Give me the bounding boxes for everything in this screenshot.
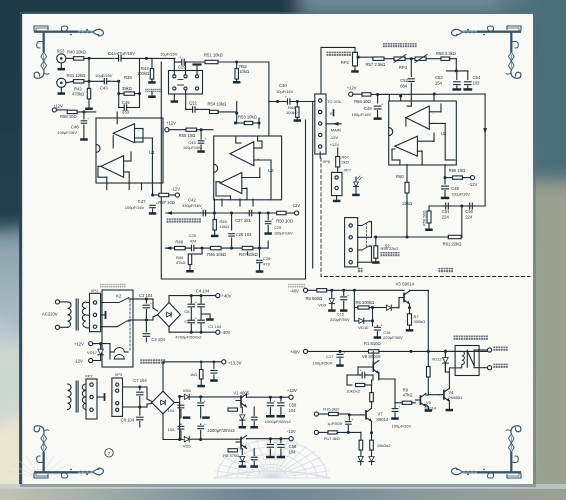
- svg-text:474: 474: [190, 239, 197, 244]
- wire XP6 TO VOL from C30: [314, 101, 316, 103]
- K2 contact 2: [101, 326, 117, 328]
- svg-text:R50 10Ω: R50 10Ω: [276, 218, 293, 223]
- svg-text:VD6: VD6: [183, 388, 192, 393]
- cap 100uF/16V near R9: [394, 403, 396, 408]
- svg-text:+: +: [274, 441, 276, 445]
- relay coil symbol: [449, 351, 464, 372]
- op-amp U1 box: [96, 118, 163, 183]
- connector XP2: [86, 379, 97, 419]
- svg-text:K2: K2: [116, 294, 122, 299]
- transformer T1 secondary: [82, 302, 86, 327]
- svg-text:R37 10Ω: R37 10Ω: [158, 200, 175, 205]
- label to discrete circuit: [167, 218, 171, 222]
- capacitor C43: [101, 80, 104, 82]
- wire: [85, 80, 104, 82]
- svg-text:XP6: XP6: [323, 159, 331, 164]
- potentiometer RP2: [353, 52, 358, 66]
- svg-text:C59: C59: [289, 444, 297, 449]
- svg-text:4700μF/50Vx2: 4700μF/50Vx2: [175, 335, 202, 340]
- svg-text:XP1: XP1: [91, 288, 99, 293]
- svg-text:+: +: [156, 202, 158, 206]
- svg-text:10kΩ: 10kΩ: [239, 69, 249, 74]
- board caption left: [100, 284, 126, 288]
- resistor R55: [169, 129, 186, 131]
- svg-text:R60: R60: [396, 174, 404, 179]
- svg-text:3kΩ: 3kΩ: [342, 160, 349, 165]
- svg-text:22kΩ: 22kΩ: [402, 201, 412, 206]
- speaker labels: [493, 347, 497, 351]
- freq select pot label: [383, 43, 387, 47]
- wire phase switch to rail: [173, 58, 175, 74]
- svg-text:10μF/16V: 10μF/16V: [160, 51, 178, 56]
- pot RP3 element B: [405, 58, 415, 60]
- AC220V terminals: [55, 300, 59, 304]
- -12V terminal: [175, 193, 179, 197]
- bottom row wire: [165, 247, 174, 249]
- svg-text:+: +: [398, 405, 400, 409]
- svg-text:S2: S2: [385, 244, 391, 249]
- svg-text:C58: C58: [289, 403, 297, 408]
- svg-text:100μF/16V: 100μF/16V: [451, 193, 470, 197]
- ground R47 under: [247, 252, 249, 255]
- bridge2 right out: [174, 402, 179, 404]
- svg-text:+12V: +12V: [166, 121, 176, 126]
- connector XP1: [90, 293, 101, 331]
- svg-text:103: 103: [473, 81, 481, 86]
- capacitor C8: [139, 407, 141, 415]
- resistor R1 810: [307, 350, 368, 352]
- bridge1 out wires: [168, 296, 170, 303]
- resistor R61: [448, 235, 461, 238]
- wire XP6 top to volume pot: [320, 47, 322, 94]
- wire XP3 to bridge2: [123, 386, 140, 388]
- R17 3k: [314, 430, 318, 434]
- K2 relay coil: [114, 348, 124, 360]
- wire to C53/C54: [450, 58, 457, 60]
- capacitor C52: [410, 59, 412, 77]
- capacitor C22: [185, 90, 187, 109]
- -12V output terminal: [289, 437, 293, 441]
- capacitor C53: [456, 71, 458, 80]
- electrolytic near V6: [358, 374, 361, 376]
- filter caps C6 C5: [190, 296, 192, 303]
- svg-text:R41 12kΩ: R41 12kΩ: [67, 73, 86, 78]
- ground stub right of C45: [151, 91, 153, 95]
- resistor R56 56ohm: [428, 206, 430, 211]
- background top-right teal zone: [498, 0, 566, 185]
- svg-text:10μF/16V: 10μF/16V: [95, 73, 113, 78]
- svg-text:R55 10Ω: R55 10Ω: [179, 133, 196, 138]
- capacitor C49: [374, 105, 381, 107]
- svg-text:333: 333: [122, 110, 130, 115]
- svg-text:224: 224: [465, 214, 473, 219]
- svg-text:C45: C45: [188, 140, 196, 145]
- svg-text:300kΩ: 300kΩ: [414, 319, 426, 324]
- svg-text:2N5551: 2N5551: [448, 395, 463, 400]
- R16 3k: [314, 412, 318, 416]
- capacitor C17: [339, 351, 341, 352]
- +40V feed terminal: [303, 349, 307, 353]
- svg-text:R46 10kΩ: R46 10kΩ: [207, 252, 226, 257]
- svg-text:+: +: [274, 399, 276, 403]
- svg-text:+: +: [204, 423, 206, 427]
- resistor R59: [374, 246, 378, 258]
- background top-left dark zone: [0, 0, 310, 230]
- resistor R51: [205, 60, 218, 63]
- wire: [66, 57, 74, 59]
- svg-text:R47 10kΩ: R47 10kΩ: [239, 252, 258, 257]
- svg-text:R40 10kΩ: R40 10kΩ: [67, 50, 86, 55]
- svg-text:VD5: VD5: [183, 443, 192, 448]
- svg-text:+: +: [204, 137, 206, 141]
- svg-text:+12V: +12V: [74, 342, 84, 347]
- resistor R57: [373, 57, 384, 60]
- svg-text:+: +: [285, 95, 287, 99]
- V5 emitter ground: [426, 405, 428, 408]
- svg-text:XS3: XS3: [57, 49, 66, 54]
- capacitor C2: [145, 320, 147, 332]
- op-amp U3 box: [389, 101, 457, 165]
- wire top rail right channel: [146, 57, 175, 59]
- resistor R65: [445, 177, 453, 179]
- svg-text:MAIN: MAIN: [331, 128, 341, 133]
- svg-text:220μF/50V: 220μF/50V: [383, 335, 403, 340]
- svg-text:-40V: -40V: [290, 289, 299, 294]
- svg-text:R16 3kΩ: R16 3kΩ: [323, 406, 339, 411]
- wire right channel vertical: [268, 62, 270, 135]
- zener VD10: [353, 308, 355, 321]
- +40V terminal: [190, 294, 193, 297]
- electrolytic 2200uF b: [198, 425, 204, 427]
- svg-text:VD10: VD10: [358, 325, 369, 330]
- svg-text:C8 104: C8 104: [121, 418, 135, 423]
- svg-text:VD12: VD12: [432, 357, 443, 362]
- svg-text:473: 473: [263, 262, 270, 267]
- capacitor C51: [443, 205, 446, 207]
- corner flourish bottom-right: [451, 426, 521, 478]
- svg-text:154: 154: [435, 81, 443, 86]
- capacitor C54: [467, 71, 469, 80]
- U2 bottom pins: [221, 199, 223, 206]
- input jack XS3: [57, 54, 66, 63]
- resistor R86: [353, 93, 362, 95]
- diode to V3 base: [373, 307, 386, 309]
- corner flourish bottom-left: [34, 426, 104, 478]
- svg-text:V5: V5: [426, 400, 432, 405]
- LED indicator: [355, 177, 357, 181]
- svg-text:-12V: -12V: [469, 182, 478, 187]
- svg-text:C47: C47: [138, 199, 146, 204]
- svg-text:E: E: [330, 111, 333, 116]
- wire from pot to R57: [358, 56, 373, 58]
- resistor R46: [210, 246, 221, 249]
- svg-text:R53 10kΩ: R53 10kΩ: [238, 115, 257, 120]
- preamp board outline frame: [161, 62, 305, 279]
- ground bars mid: [180, 416, 182, 418]
- capacitor C16: [372, 308, 374, 326]
- resistor R42: [88, 58, 90, 81]
- bottom diodes: [360, 450, 362, 456]
- cap 104 a: [179, 402, 181, 404]
- board caption right: [288, 284, 305, 288]
- wire: [371, 93, 389, 95]
- capacitor C44: [116, 57, 119, 59]
- V3 emitter to R7: [409, 304, 411, 314]
- svg-text:10kΩ: 10kΩ: [220, 224, 229, 229]
- control board label: [439, 268, 443, 272]
- phase switch box: [169, 71, 203, 95]
- U3 bottom wires: [406, 165, 408, 183]
- svg-text:RP3: RP3: [399, 65, 408, 70]
- cap beside V2: [253, 449, 255, 456]
- svg-text:R5 560Ω: R5 560Ω: [306, 296, 323, 301]
- svg-text:470kΩ: 470kΩ: [72, 92, 84, 97]
- svg-text:C15: C15: [337, 311, 345, 316]
- relay contact symbol: [467, 350, 474, 368]
- wire: [123, 57, 152, 59]
- K2 dashed link: [129, 300, 131, 352]
- key XP2: [97, 396, 104, 398]
- connector XP3: [112, 378, 123, 416]
- svg-text:U3: U3: [441, 131, 447, 136]
- resistor R37: [159, 193, 169, 196]
- svg-text:R65 10Ω: R65 10Ω: [449, 168, 466, 173]
- svg-text:R1 810Ω: R1 810Ω: [364, 341, 381, 346]
- phase switch top bar: [194, 63, 201, 65]
- svg-text:+: +: [347, 293, 349, 297]
- svg-text:10kΩx2: 10kΩx2: [377, 443, 391, 448]
- svg-text:1000μF/50Vx2: 1000μF/50Vx2: [265, 419, 292, 424]
- svg-text:C25: C25: [274, 225, 282, 230]
- output filter caps +12V: [269, 397, 271, 401]
- resistor R52: [236, 62, 238, 69]
- op-amp B in U1: [101, 156, 124, 178]
- capacitor C42: [200, 212, 203, 214]
- svg-text:R17 3kΩ: R17 3kΩ: [324, 436, 340, 441]
- svg-text:39kΩ: 39kΩ: [122, 86, 132, 91]
- capacitor C46: [83, 112, 85, 119]
- svg-text:C54: C54: [473, 75, 481, 80]
- background top strip light patch: [300, 0, 535, 16]
- svg-text:-12V: -12V: [171, 187, 180, 192]
- +13.3V rail detail: [200, 361, 203, 364]
- phase switch ground: [173, 94, 175, 100]
- svg-text:V3 S9014: V3 S9014: [396, 282, 415, 287]
- svg-text:104: 104: [168, 427, 175, 432]
- resistor 1k to ground: [200, 362, 202, 370]
- background bottom-left cream wedge: [0, 342, 158, 500]
- power switch connector S2 box: [345, 218, 358, 267]
- wire: [221, 247, 242, 249]
- resistor R58b 3.3k: [426, 58, 441, 60]
- svg-text:104: 104: [168, 408, 175, 413]
- corner flourish top-right: [451, 26, 521, 78]
- background bottom strip: [0, 488, 566, 500]
- svg-text:R61 22kΩ: R61 22kΩ: [443, 242, 462, 247]
- svg-text:R56 56Ω: R56 56Ω: [422, 210, 427, 226]
- U3 output wire y94: [378, 93, 486, 95]
- V4 base wire: [428, 394, 439, 396]
- svg-text:V6 S9015: V6 S9015: [362, 354, 381, 359]
- V1 collector to +12 rail: [246, 394, 248, 397]
- connector XP6: [315, 94, 326, 154]
- resistor 10k x2 a: [357, 383, 359, 385]
- op-amp U2 box: [214, 136, 282, 200]
- wire: [84, 57, 114, 59]
- U1 bottom pins: [106, 177, 108, 189]
- resistor R49: [201, 247, 204, 250]
- svg-text:AC220V: AC220V: [42, 312, 58, 317]
- svg-text:+12V: +12V: [287, 388, 297, 393]
- resistor R47: [242, 246, 253, 249]
- svg-text:10μF/16V: 10μF/16V: [276, 89, 294, 94]
- wire: [109, 80, 119, 82]
- wire y206 caps: [429, 205, 485, 207]
- svg-text:+13.3V: +13.3V: [228, 360, 242, 365]
- svg-text:+: +: [150, 302, 152, 306]
- wire XP6 bottom: [319, 152, 321, 158]
- pot RP3 element A: [384, 58, 394, 60]
- bridge rectifier 1: [158, 303, 181, 327]
- power relay label: [140, 359, 144, 363]
- resistor R58: [56, 109, 67, 111]
- svg-text:VD9: VD9: [318, 303, 327, 308]
- transformer T1 core: [75, 299, 77, 330]
- svg-text:C26: C26: [263, 256, 271, 261]
- svg-text:R51 10kΩ: R51 10kΩ: [204, 53, 223, 58]
- svg-text:-12V: -12V: [74, 359, 83, 364]
- relay K2 box: [102, 290, 133, 367]
- svg-text:-40V: -40V: [222, 330, 231, 335]
- svg-text:XP3: XP3: [115, 372, 123, 377]
- -40V feed terminal: [303, 288, 307, 292]
- relay wires to terminals: [474, 349, 487, 351]
- svg-text:C30: C30: [279, 83, 287, 88]
- svg-text:47kΩ: 47kΩ: [176, 260, 185, 265]
- svg-text:R48: R48: [175, 240, 183, 245]
- svg-text:100kΩ: 100kΩ: [137, 71, 149, 76]
- input jack XS4: [57, 78, 66, 87]
- svg-text:+: +: [87, 117, 89, 121]
- svg-text:100μF/50V: 100μF/50V: [313, 361, 333, 366]
- capacitor C47: [150, 204, 156, 206]
- speaker relay label: [454, 336, 458, 340]
- svg-text:104: 104: [289, 408, 297, 413]
- zener VD under V1: [241, 407, 243, 413]
- svg-text:+: +: [343, 351, 345, 355]
- background right khaki zone: [522, 182, 566, 500]
- U1 internal wires: [116, 118, 118, 124]
- svg-text:+12V: +12V: [347, 85, 357, 90]
- capacitor C27: [246, 212, 249, 214]
- svg-text:R57 2.5kΩ: R57 2.5kΩ: [366, 62, 386, 67]
- V1 emitter resistor: [240, 406, 242, 408]
- svg-text:C1 104: C1 104: [139, 293, 153, 298]
- svg-text:100μF/16V: 100μF/16V: [57, 130, 77, 135]
- svg-text:+: +: [179, 56, 181, 60]
- cap at 13.3V: [213, 362, 215, 369]
- transformer T1 primary: [59, 301, 67, 303]
- svg-text:-12V: -12V: [287, 429, 296, 434]
- svg-text:100μF/16V: 100μF/16V: [352, 112, 372, 117]
- connector XP7: [332, 172, 343, 195]
- op-amp A in U3: [406, 106, 429, 129]
- op-amp A in U2: [230, 142, 254, 166]
- svg-text:R54 10kΩ: R54 10kΩ: [208, 102, 227, 107]
- svg-text:10kΩx2: 10kΩx2: [346, 389, 360, 394]
- capacitor C45 333: [121, 107, 124, 109]
- resistor R41: [66, 81, 74, 83]
- control board dashed border: [321, 158, 530, 277]
- svg-text:100μF/16V: 100μF/16V: [183, 146, 202, 150]
- svg-text:C51: C51: [442, 209, 450, 214]
- node feedback R39/C45: [118, 81, 120, 107]
- svg-text:C50: C50: [465, 209, 473, 214]
- S2 switch contacts: [358, 225, 362, 227]
- to label: [358, 268, 362, 272]
- svg-text:+12V: +12V: [330, 142, 340, 147]
- V7 base network: [349, 414, 361, 416]
- svg-text:330μF/16V: 330μF/16V: [182, 203, 202, 208]
- pale watermark ornament bottom left: [8, 454, 72, 478]
- +12V output terminal: [289, 395, 293, 399]
- resistor R43: [151, 58, 153, 68]
- op-amp B in U3: [395, 136, 418, 156]
- svg-text:C45: C45: [122, 100, 130, 105]
- svg-text:C29: C29: [189, 233, 197, 238]
- XP1 key: [101, 314, 105, 316]
- svg-text:V1 4005: V1 4005: [233, 390, 249, 395]
- svg-text:2200μF/25Vx2: 2200μF/25Vx2: [207, 428, 235, 433]
- svg-text:+: +: [360, 369, 362, 373]
- V4 emitter ground: [448, 401, 450, 409]
- volume pot label: [327, 52, 331, 56]
- svg-text:+: +: [381, 103, 383, 107]
- zener under V2: [241, 449, 243, 455]
- electrolytic pair 2200uF a: [200, 397, 202, 401]
- resistor R60: [405, 182, 409, 193]
- svg-text:+40V: +40V: [222, 294, 232, 299]
- V4 collector up to VD12 node: [448, 372, 450, 389]
- V5 collector resistor: [427, 367, 431, 378]
- capacitor C50: [467, 205, 470, 207]
- svg-text:+40V: +40V: [290, 349, 300, 354]
- svg-text:-12V: -12V: [330, 135, 339, 140]
- capacitor C48: [442, 185, 449, 187]
- resistor R45: [213, 213, 215, 220]
- svg-text:C17: C17: [326, 354, 334, 359]
- svg-text:C3 104: C3 104: [208, 324, 222, 329]
- svg-text:R6 100kΩ: R6 100kΩ: [356, 300, 375, 305]
- zener VD9: [331, 290, 333, 298]
- mid ground: [201, 313, 210, 315]
- resistor R44: [296, 102, 298, 107]
- bottom vertical resistors 10kx2: [359, 440, 363, 450]
- capacitor C15: [343, 290, 345, 295]
- svg-text:RP2: RP2: [341, 60, 350, 65]
- svg-text:R58 10Ω: R58 10Ω: [60, 114, 77, 119]
- bridge2 out top to +13.3 rail: [162, 362, 164, 391]
- svg-text:C53: C53: [435, 75, 443, 80]
- capacitor C26: [259, 248, 261, 257]
- resistor R54: [210, 110, 219, 113]
- svg-text:684: 684: [400, 84, 408, 89]
- resistor R50: [277, 211, 286, 214]
- resistor R7 300k: [408, 314, 412, 325]
- V2 emitter resistor R5 470: [240, 447, 242, 449]
- resistor R48: [175, 246, 186, 249]
- svg-text:V7: V7: [378, 412, 384, 417]
